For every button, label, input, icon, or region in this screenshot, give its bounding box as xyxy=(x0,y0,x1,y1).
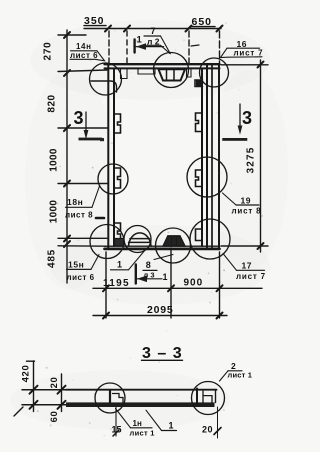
svg-text:20: 20 xyxy=(202,425,213,435)
svg-text:2: 2 xyxy=(231,361,236,371)
svg-text:420: 420 xyxy=(21,365,32,383)
svg-text:лист 1: лист 1 xyxy=(228,371,253,380)
svg-text:3 – 3: 3 – 3 xyxy=(142,345,183,362)
svg-text:лист 1: лист 1 xyxy=(130,429,155,438)
svg-text:2095: 2095 xyxy=(147,304,174,316)
